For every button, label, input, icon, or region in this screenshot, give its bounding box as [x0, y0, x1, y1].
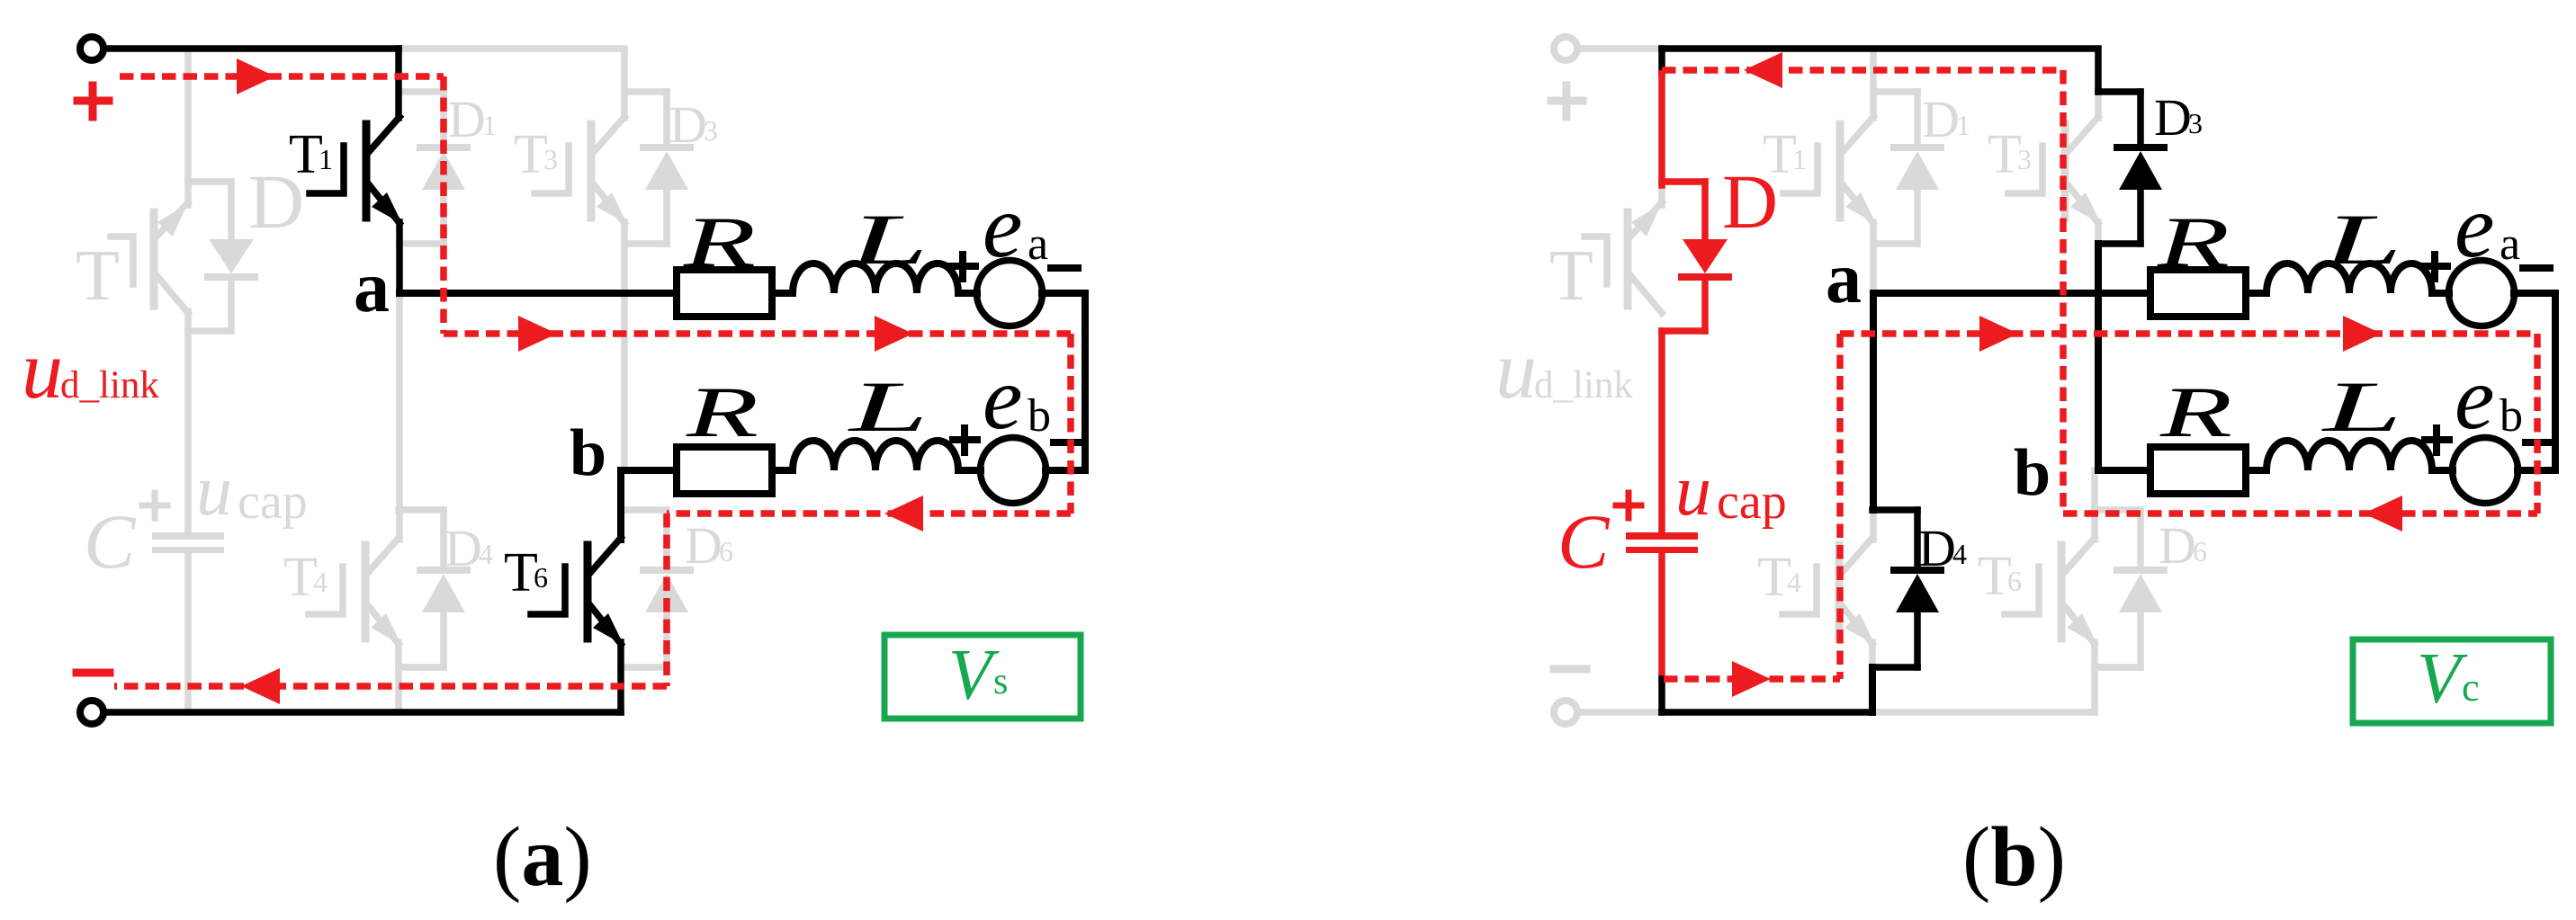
wire node a to R (phase a)	[399, 290, 677, 297]
capacitor C (red)	[1626, 532, 1698, 553]
wire bottom rail (black)	[104, 709, 621, 716]
svg-text:T: T	[1549, 237, 1593, 316]
arrow right on phase a return 2	[2343, 316, 2382, 352]
label minus (gray supply)	[1554, 665, 1586, 674]
diode D6 (gray)	[621, 510, 690, 667]
current path capacitor bottom (red dashed)	[1664, 675, 1840, 683]
label + (gray supply)	[1551, 85, 1583, 117]
label minus (e_b)	[1054, 439, 1081, 446]
svg-text:V: V	[2417, 639, 2468, 719]
svg-text:e: e	[2455, 348, 2494, 448]
svg-text:4: 4	[313, 566, 328, 598]
svg-text:u: u	[22, 324, 63, 415]
svg-text:cap: cap	[238, 474, 308, 530]
arrow right on phase a return 1	[1979, 316, 2018, 352]
transistor T (gray chopper)	[111, 52, 188, 532]
wire R to L (phase a)	[2246, 290, 2266, 297]
svg-text:3: 3	[2017, 143, 2032, 175]
wire top rail gray to T3 leg	[399, 45, 624, 52]
current path right side down (red dashed)	[1067, 334, 1074, 514]
label minus (e_a)	[1051, 264, 1078, 272]
svg-text:D: D	[685, 516, 723, 575]
svg-text:1: 1	[1956, 109, 1970, 141]
arrow left on phase b return	[884, 496, 923, 531]
inductor L (phase a)	[793, 263, 958, 293]
transistor T4 (gray)	[1782, 510, 1875, 667]
current path down right leg of b loop (red dashed)	[2060, 70, 2067, 514]
current path bottom return (red dashed)	[114, 683, 667, 690]
terminal minus (bottom-left)	[80, 701, 103, 724]
wire chopper leg to capacitor (red)	[1658, 331, 1665, 532]
transistor T6 (black)	[531, 470, 624, 712]
svg-text:1: 1	[482, 109, 497, 141]
arrow right on top path	[237, 58, 275, 94]
diode D (red)	[1662, 182, 1728, 331]
svg-text:L: L	[2321, 201, 2402, 280]
current path below phase a (red dashed)	[1840, 330, 2537, 337]
svg-text:L: L	[848, 201, 929, 280]
svg-text:3: 3	[543, 143, 558, 175]
svg-text:3: 3	[704, 114, 718, 147]
svg-text:6: 6	[534, 561, 548, 594]
diode D1 (gray)	[399, 92, 467, 244]
wire top stub (gray)	[1578, 45, 1662, 52]
svg-text:V: V	[948, 636, 1000, 715]
wire node b to R (black)	[2098, 467, 2150, 474]
wire node a to R (phase a)	[1873, 290, 2150, 297]
label + (e_b)	[2425, 428, 2449, 452]
current path top (red dashed)	[120, 73, 444, 80]
svg-text:a: a	[2500, 219, 2520, 270]
svg-text:4: 4	[1787, 566, 1801, 598]
svg-text:b: b	[1028, 390, 1051, 442]
svg-text:u: u	[196, 451, 232, 531]
label minus (red supply)	[76, 669, 110, 677]
svg-text:L: L	[848, 368, 929, 447]
diode D3 (black)	[2098, 92, 2164, 244]
svg-text:e: e	[2455, 176, 2494, 276]
wire node b to R	[621, 467, 677, 474]
diode D6 (gray)	[2095, 510, 2164, 667]
label minus (e_a)	[2523, 264, 2550, 272]
arrow right on mid path 1	[518, 316, 557, 352]
svg-text:e: e	[983, 176, 1022, 276]
wire capacitor to bottom (red)	[1658, 553, 1665, 679]
transistor T4 (gray)	[309, 538, 401, 712]
svg-text:cap: cap	[1717, 474, 1787, 530]
terminal + (top-left)	[80, 37, 103, 60]
source e_b	[981, 438, 1046, 504]
wire top rail (black)	[104, 45, 399, 52]
transistor T1 (gray)	[1783, 52, 1876, 293]
svg-text:4: 4	[1952, 538, 1967, 570]
svg-text:u: u	[1495, 324, 1537, 415]
source e_a	[2449, 261, 2515, 326]
transistor T1 (black)	[310, 49, 402, 293]
svg-text:L: L	[2321, 368, 2402, 447]
arrow right on capacitor bottom path	[1732, 661, 1771, 697]
current path up from capacitor (red dashed)	[1836, 334, 1844, 679]
wire bottom rail (black)	[1662, 709, 1872, 716]
diode D4 (black)	[1872, 510, 1941, 667]
svg-text:a: a	[1826, 239, 1862, 318]
wire e_a right corner down to e_b	[2514, 293, 2555, 470]
svg-text:1: 1	[319, 143, 333, 175]
resistor R (phase b)	[2150, 447, 2246, 494]
wire R to L (phase a)	[772, 290, 793, 297]
svg-text:R: R	[682, 203, 756, 282]
svg-text:u: u	[1675, 451, 1711, 531]
resistor R (phase a)	[677, 270, 772, 317]
svg-text:D: D	[2154, 88, 2192, 147]
resistor R (phase b)	[677, 447, 772, 494]
label + (e_a)	[2423, 255, 2447, 279]
transistor T6 (gray)	[2005, 470, 2097, 712]
svg-text:b: b	[2500, 390, 2523, 442]
label + (cap polarity)	[142, 493, 167, 518]
svg-text:R: R	[685, 373, 758, 452]
label + (e_b)	[953, 428, 977, 452]
arrow left on bottom return	[241, 668, 280, 704]
svg-text:c: c	[2462, 665, 2480, 710]
svg-text:(a): (a)	[493, 810, 592, 904]
box Vs (green)	[884, 635, 1081, 719]
inductor L (phase a)	[2266, 263, 2432, 293]
svg-text:4: 4	[479, 538, 493, 570]
wire chopper top stub (black)	[1658, 49, 1665, 74]
svg-text:d_link: d_link	[60, 364, 159, 406]
svg-text:a: a	[1028, 219, 1048, 270]
svg-text:b: b	[570, 416, 606, 490]
current path down T6 leg (red dashed)	[663, 514, 670, 686]
svg-text:R: R	[2156, 203, 2230, 282]
current path down T1 leg (red dashed)	[440, 76, 447, 334]
diode D1 (gray)	[1873, 92, 1941, 244]
current path below phase b (red dashed)	[667, 510, 1071, 517]
wire capacitor bottom stub (black)	[1658, 679, 1665, 712]
wire R to L (phase b)	[772, 467, 793, 474]
diode D4 (gray)	[399, 510, 467, 667]
svg-text:T: T	[76, 237, 120, 316]
diode D3 (gray)	[624, 92, 690, 244]
wire e_a to right corner down to e_b	[1042, 293, 1085, 470]
svg-text:a: a	[354, 248, 390, 327]
svg-text:D: D	[448, 90, 486, 148]
svg-text:e: e	[983, 348, 1022, 448]
source e_b	[2453, 438, 2518, 504]
svg-text:3: 3	[2188, 107, 2203, 139]
arrow right on mid path 2	[875, 316, 913, 352]
svg-text:d_link: d_link	[1534, 364, 1633, 406]
terminal + (gray)	[1554, 37, 1577, 60]
wire L to e_b	[958, 467, 981, 474]
wire L to e_b	[2432, 467, 2453, 474]
current path top (red dashed)	[1662, 67, 2063, 74]
resistor R (phase a)	[2150, 270, 2246, 317]
svg-text:b: b	[2014, 436, 2051, 510]
transistor T3 (gray)	[534, 52, 627, 470]
capacitor C (gray)	[152, 532, 224, 553]
svg-text:D: D	[444, 519, 482, 577]
box Vc (green)	[2353, 639, 2551, 723]
wire L to e_a	[958, 290, 977, 297]
svg-text:C: C	[84, 498, 137, 585]
transistor T (gray chopper)	[1584, 185, 1662, 313]
terminal minus (gray)	[1554, 701, 1577, 724]
svg-text:(b): (b)	[1962, 810, 2066, 904]
svg-text:6: 6	[2193, 535, 2207, 567]
svg-text:D: D	[1918, 519, 1956, 577]
svg-text:6: 6	[2007, 565, 2022, 597]
wire L to e_a	[2432, 290, 2449, 297]
inductor L (phase b)	[793, 441, 958, 470]
svg-text:C: C	[1557, 498, 1611, 585]
svg-text:D: D	[2159, 516, 2196, 575]
source e_a	[977, 261, 1043, 326]
label minus (e_b)	[2526, 439, 2553, 446]
label + (e_a)	[951, 255, 975, 279]
transistor T3 (gray symbol)	[2008, 92, 2101, 244]
chopper leg (red solid)	[1658, 74, 1665, 185]
wire a-leg gray below node a	[396, 293, 403, 540]
svg-text:1: 1	[1792, 143, 1807, 175]
wire capacitor to bottom rail (gray)	[184, 553, 192, 712]
current path below phase a (red dashed)	[444, 330, 1071, 337]
wire top rail (black)	[1662, 49, 2098, 92]
wire bottom stub left (gray)	[1578, 709, 1662, 716]
wire bottom rail mid (gray)	[1872, 709, 2095, 716]
svg-text:6: 6	[719, 535, 733, 567]
label + (red supply)	[77, 85, 109, 117]
svg-text:D: D	[1722, 158, 1778, 245]
diode D (gray freewheel)	[188, 182, 255, 331]
current path right side (red dashed)	[2534, 334, 2541, 514]
svg-text:D: D	[1922, 90, 1960, 148]
wire R to L (phase b)	[2246, 467, 2266, 474]
svg-text:D: D	[669, 95, 707, 154]
arrow left on top path	[1744, 52, 1782, 88]
wire D4 leg to bottom rail (black)	[1869, 667, 1876, 712]
arrow left on phase b return	[2364, 496, 2402, 531]
svg-text:R: R	[2159, 373, 2232, 452]
current path below phase b (red dashed)	[2063, 510, 2537, 517]
inductor L (phase b)	[2266, 441, 2432, 470]
wire node a leg (black)	[1870, 293, 1877, 510]
label + (cap polarity red)	[1616, 493, 1641, 518]
wire T3 leg down to node b (black)	[2095, 244, 2102, 470]
svg-text:s: s	[993, 661, 1008, 702]
